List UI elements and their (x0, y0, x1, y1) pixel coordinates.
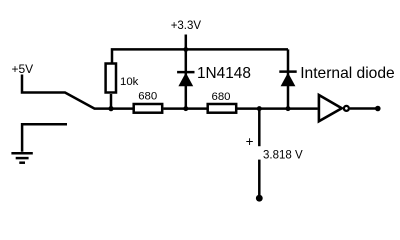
svg-text:3.818 V: 3.818 V (263, 149, 303, 161)
svg-text:680: 680 (212, 91, 231, 103)
svg-text:1N4148: 1N4148 (197, 65, 251, 82)
svg-text:+3.3V: +3.3V (171, 20, 202, 32)
svg-text:+5V: +5V (12, 62, 34, 76)
svg-text:10k: 10k (120, 76, 139, 88)
svg-text:680: 680 (138, 91, 157, 103)
svg-text:+: + (246, 134, 254, 149)
svg-text:Internal diode: Internal diode (300, 65, 395, 82)
